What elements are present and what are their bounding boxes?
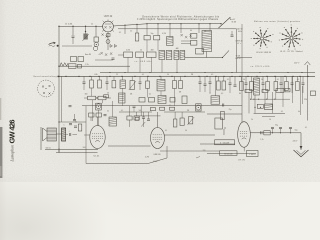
wire heater rail 2 xyxy=(82,105,242,107)
wire y122 left xyxy=(59,121,86,123)
resistor R29 xyxy=(96,113,101,117)
capacitor C7 xyxy=(83,81,86,83)
svg-text:± 20% möglich. Spannungen mit: ± 20% möglich. Spannungen mit Röhrenvolt… xyxy=(137,17,219,21)
svg-text:0,1: 0,1 xyxy=(277,79,279,81)
antenna arrow A1 xyxy=(49,43,56,45)
node rail J6 xyxy=(136,24,137,25)
wire drop ext b xyxy=(147,88,149,97)
node rail J8 xyxy=(157,23,158,24)
svg-text:468: 468 xyxy=(151,49,154,51)
wire jack drop xyxy=(98,110,100,126)
wire v300 xyxy=(300,76,302,115)
node t9 a xyxy=(254,107,255,108)
resistor R19 xyxy=(217,81,221,90)
wire chassis rail xyxy=(59,75,315,77)
svg-text:50µ: 50µ xyxy=(295,130,298,132)
speaker hatch xyxy=(47,131,56,138)
resistor R13 xyxy=(112,81,116,88)
wire row y112b xyxy=(164,111,205,113)
switch S1 arm xyxy=(219,18,231,29)
capacitor C21d xyxy=(69,105,72,107)
node S1 tip xyxy=(229,17,230,18)
svg-text:0,1: 0,1 xyxy=(121,110,123,112)
wire v292 xyxy=(292,76,294,103)
svg-text:L 4020: L 4020 xyxy=(249,154,256,156)
capacitor C9 xyxy=(139,81,142,83)
svg-text:ca. 468 kHz: ca. 468 kHz xyxy=(135,61,152,63)
node J2 xyxy=(85,26,86,27)
capacitor C28 xyxy=(289,126,292,128)
svg-text:0,1: 0,1 xyxy=(165,130,167,132)
wire bottom bus 2 xyxy=(56,152,98,154)
svg-text:50: 50 xyxy=(185,130,187,132)
node avc J5 xyxy=(231,72,232,73)
wire drop x147 xyxy=(146,24,148,36)
node rail J12 xyxy=(209,23,210,24)
node chassis-left xyxy=(58,76,59,77)
svg-text:5k: 5k xyxy=(107,111,109,113)
wire drop x73 xyxy=(72,26,74,35)
range switch contacts xyxy=(42,85,51,95)
wire drop x170 xyxy=(169,24,171,37)
resistor R23 xyxy=(266,82,270,91)
capacitor C11 xyxy=(204,83,207,85)
resistor R38 xyxy=(276,89,284,93)
svg-text:5k: 5k xyxy=(261,79,263,81)
potentiometer P2 xyxy=(130,81,134,90)
svg-text:0,1: 0,1 xyxy=(149,94,151,96)
svg-text:4 700: 4 700 xyxy=(153,161,158,163)
node chassis J9 xyxy=(171,76,172,77)
svg-text:47 c: 47 c xyxy=(237,43,241,45)
wire c30 drop xyxy=(133,105,135,107)
capacitor C6 xyxy=(112,57,115,59)
node y99 d xyxy=(274,99,275,100)
boxed label B3 xyxy=(247,151,259,157)
svg-text:0,1M: 0,1M xyxy=(68,24,73,26)
svg-text:50: 50 xyxy=(65,24,67,26)
resistor R18 xyxy=(104,95,109,98)
tube U4 envelope xyxy=(238,122,251,148)
svg-text:220: 220 xyxy=(203,150,206,152)
node chassis J6 xyxy=(134,76,135,77)
tube U3 envelope xyxy=(151,128,165,149)
resistor R40 xyxy=(257,104,263,108)
wire AVC rail xyxy=(100,72,315,74)
IF transformer T5 xyxy=(254,78,260,95)
svg-text:50p: 50p xyxy=(151,33,154,35)
wire row y112 xyxy=(119,111,152,113)
capacitor C10 xyxy=(199,81,202,83)
svg-text:41: 41 xyxy=(98,54,100,56)
transformer T6 winding xyxy=(62,128,66,141)
wire drop ext e xyxy=(91,88,93,96)
wire ext v267 xyxy=(267,91,269,100)
svg-text:Ant 4B: Ant 4B xyxy=(85,53,91,56)
resistor R22 xyxy=(250,82,254,91)
transformer T9 primary xyxy=(265,104,273,110)
svg-text:0,1: 0,1 xyxy=(227,79,229,81)
resistor R8 xyxy=(147,52,156,57)
capacitor C14 xyxy=(234,84,237,86)
resistor R10 xyxy=(69,64,77,69)
range switch S3 dashed circle xyxy=(38,80,55,97)
node chassis J16 xyxy=(239,76,240,77)
svg-text:UCH 42 UBF 80: UCH 42 UBF 80 xyxy=(256,52,272,54)
coil L4 xyxy=(119,93,125,103)
IF transformer T2 a xyxy=(159,51,165,60)
svg-text:300: 300 xyxy=(85,94,88,96)
node avc J3 xyxy=(176,72,177,73)
resistor R32 xyxy=(173,119,177,127)
resistor R6 xyxy=(124,52,133,57)
tube socket diagram V1 xyxy=(261,37,264,40)
resistor R11 xyxy=(90,80,94,88)
node chassis J10 xyxy=(184,76,185,77)
svg-text:UCH 42: UCH 42 xyxy=(104,15,113,18)
wire row y57.5 xyxy=(185,57,223,59)
boxed label B1 xyxy=(215,140,235,145)
wire v283 xyxy=(282,76,284,107)
node out3 xyxy=(290,132,291,133)
resistor R27 xyxy=(78,124,82,131)
wire u2-u3 link xyxy=(108,145,151,147)
node avc J1 xyxy=(124,72,125,73)
potentiometer P1 xyxy=(83,34,87,40)
resistor R9a xyxy=(71,57,77,62)
coil L5 xyxy=(109,117,116,126)
stray mark xyxy=(196,157,200,159)
svg-text:50: 50 xyxy=(243,79,245,81)
potentiometer P4 xyxy=(135,117,139,120)
wire second rail xyxy=(118,28,237,30)
node chassis J2 xyxy=(89,76,90,77)
svg-text:50: 50 xyxy=(107,93,109,95)
trimmer capacitor C2 xyxy=(94,42,98,46)
node y99 a xyxy=(250,99,251,100)
capacitor C30 xyxy=(133,105,136,107)
speaker LS1 frame xyxy=(47,128,56,141)
svg-text:2k: 2k xyxy=(251,119,253,121)
node switch tap xyxy=(57,76,59,78)
resistor row b xyxy=(160,107,165,110)
oscillator coil circle xyxy=(93,46,97,50)
wire drop t2 xyxy=(161,60,163,73)
resistor R10b xyxy=(78,64,82,68)
wire U5 grid xyxy=(84,134,90,136)
wire link sp xyxy=(56,133,61,135)
svg-text:0,2: 0,2 xyxy=(211,74,213,76)
coil L1 xyxy=(167,37,173,46)
resistor R42 xyxy=(149,98,155,103)
svg-text:25µ: 25µ xyxy=(229,109,232,111)
tube U5 output envelope xyxy=(90,126,105,149)
wire l-route right xyxy=(160,150,220,152)
speaker LS1 cone xyxy=(43,128,47,141)
wire ext v275 xyxy=(275,91,277,100)
wire U3 top xyxy=(157,112,159,128)
wire y116 xyxy=(262,116,275,118)
node chassis J15 xyxy=(231,76,232,77)
resistor R4 xyxy=(154,36,160,40)
node avc J0 xyxy=(109,72,110,73)
wire C1 down xyxy=(72,37,74,44)
svg-text:UL 41: UL 41 xyxy=(94,155,101,157)
mains arrow xyxy=(294,150,309,157)
svg-text:500 Ω: 500 Ω xyxy=(45,147,51,149)
svg-text:0,3: 0,3 xyxy=(297,79,299,81)
wire link y60 xyxy=(95,59,113,61)
wire drop x158 xyxy=(157,24,159,36)
svg-text:0,1: 0,1 xyxy=(119,32,121,34)
wire v141 xyxy=(140,106,142,116)
wire drop ext a xyxy=(122,88,124,105)
node chassis J8 xyxy=(159,76,160,77)
node rail J7 xyxy=(146,23,147,24)
wire bottom bus 1 xyxy=(45,149,98,151)
svg-text:0,5: 0,5 xyxy=(221,93,223,95)
svg-text:0,5: 0,5 xyxy=(169,105,171,107)
wire heater seg xyxy=(59,65,130,67)
resistor R33 xyxy=(180,118,184,125)
node rail J11 xyxy=(198,23,199,24)
node y122 xyxy=(58,121,59,122)
svg-text:1,2k: 1,2k xyxy=(260,139,263,141)
svg-text:220 V~: 220 V~ xyxy=(294,63,300,65)
capacitor C17 xyxy=(280,82,283,84)
capacitor C1 xyxy=(72,35,75,37)
resistor row c xyxy=(170,107,175,110)
node chassis J11 xyxy=(198,76,199,77)
wire left bus pair xyxy=(61,76,63,122)
resistor row a xyxy=(150,108,155,111)
wire drop x199 xyxy=(198,24,200,33)
node y99 c xyxy=(266,99,267,100)
resistor column Rb xyxy=(191,41,197,46)
node rail J10 xyxy=(180,23,181,24)
tube U1 hexode marks xyxy=(101,52,113,56)
capacitor C16 xyxy=(262,82,265,84)
wire U1 anode drop xyxy=(107,32,109,50)
capacitor C21c xyxy=(74,125,77,127)
svg-text:GW 426: GW 426 xyxy=(8,120,17,144)
wire v265 xyxy=(264,93,266,104)
svg-text:220 V: 220 V xyxy=(293,140,298,142)
wire drop r8 xyxy=(151,57,153,72)
node avc J4 xyxy=(204,72,205,73)
transformer T8 box xyxy=(215,118,222,129)
capacitor C22 xyxy=(104,114,107,116)
svg-text:UY 1 N: UY 1 N xyxy=(238,159,245,161)
node chassis J22 xyxy=(292,76,293,77)
wire drop ext c xyxy=(160,91,162,96)
wire drop ext d xyxy=(174,89,176,106)
svg-text:1,5k: 1,5k xyxy=(85,64,88,66)
capacitor C21 xyxy=(73,119,76,121)
node heater-left xyxy=(58,66,59,67)
svg-text:50µ: 50µ xyxy=(275,125,278,127)
svg-text:50: 50 xyxy=(167,74,169,76)
resistor R16 xyxy=(179,81,183,89)
capacitor C24 xyxy=(147,118,150,120)
svg-text:ZF: ZF xyxy=(253,99,255,101)
capacitor C13 xyxy=(229,82,232,84)
svg-text:SB 63 ΩM: SB 63 ΩM xyxy=(224,153,233,155)
wire switch right xyxy=(237,57,252,59)
resistor R26 xyxy=(296,82,300,91)
resistor R3 xyxy=(144,36,150,40)
node chassis J13 xyxy=(215,76,216,77)
resistor R44 xyxy=(182,96,187,104)
wire x236 vertical xyxy=(236,29,238,73)
wire v92 xyxy=(92,100,94,121)
wire y153 xyxy=(207,153,256,155)
box jack J5 xyxy=(196,104,202,111)
svg-text:Bereichsumschaltung: Bereichsumschaltung xyxy=(34,75,57,78)
wire left bus vertical xyxy=(58,26,60,152)
resistor column Ra xyxy=(191,34,197,39)
capacitor C25 xyxy=(222,104,224,107)
resistor R45 xyxy=(311,91,316,96)
wire v102 xyxy=(102,100,104,103)
wire y116 mid xyxy=(134,115,161,117)
IF transformer T2 b xyxy=(166,51,172,60)
node chassis J17 xyxy=(247,76,248,77)
wire drop x125 xyxy=(124,25,126,34)
svg-text:10: 10 xyxy=(269,119,271,121)
capacitor C20 electrolytic xyxy=(69,133,71,136)
wire v272 xyxy=(272,92,274,113)
svg-text:50k: 50k xyxy=(139,110,142,112)
wire drop t3 xyxy=(176,60,178,73)
wire v112 xyxy=(112,101,114,117)
tube U1 UCH42 envelope xyxy=(103,21,114,32)
node avc J7 xyxy=(287,72,288,73)
wire T1 bottom xyxy=(206,52,208,58)
svg-text:2k: 2k xyxy=(130,31,132,33)
tube U1 triode marks xyxy=(102,34,108,38)
wire y99 xyxy=(251,98,291,100)
capacitor C27 xyxy=(279,126,282,128)
node t9 b xyxy=(260,107,261,108)
coil L7 xyxy=(158,96,166,104)
node rail J9 xyxy=(169,23,170,24)
svg-text:1k: 1k xyxy=(75,122,77,124)
node rail corner xyxy=(58,26,59,27)
resistor R15 xyxy=(173,81,177,89)
padder flags xyxy=(110,45,117,48)
wire lower link xyxy=(62,45,92,47)
tube U2 electrode marks xyxy=(181,34,192,38)
wire HT rail left xyxy=(59,25,103,27)
wire drop x96 xyxy=(95,26,97,37)
wire HT rail right of U1 xyxy=(113,24,221,26)
antenna symbol right xyxy=(305,62,311,72)
coil L3 xyxy=(120,80,125,88)
node chassis J24 xyxy=(307,76,308,77)
svg-text:0,1: 0,1 xyxy=(305,127,307,129)
node y99 b xyxy=(258,99,259,100)
wire drop x137 xyxy=(136,24,138,33)
resistor R39 xyxy=(285,89,290,92)
tube U1 lower box xyxy=(107,34,110,37)
tube U1 electrodes xyxy=(104,26,111,28)
svg-text:500: 500 xyxy=(83,147,86,149)
svg-text:50: 50 xyxy=(140,49,142,51)
wire mid link xyxy=(165,134,216,136)
node out2 xyxy=(280,132,281,133)
svg-text:4,7M: 4,7M xyxy=(145,157,149,159)
wire y113 xyxy=(254,112,285,114)
capacitor C12 xyxy=(209,81,212,83)
resistor R20 xyxy=(222,81,226,90)
tube socket diagram V2 xyxy=(290,37,293,40)
resistor R35 xyxy=(264,131,270,135)
wire link r4 xyxy=(157,40,159,51)
svg-text:UBF 80: UBF 80 xyxy=(153,154,161,156)
svg-text:Röhren von unten (Lötseite) ge: Röhren von unten (Lötseite) gesehen xyxy=(254,20,301,23)
switch S2 arm xyxy=(223,51,230,58)
node chassis J0 xyxy=(65,76,66,77)
wire right vertical xyxy=(306,72,308,121)
wire mains drop xyxy=(300,133,302,150)
wire T7 drop xyxy=(214,76,216,95)
capacitor C18 xyxy=(291,82,294,84)
wire U4 right xyxy=(250,132,301,134)
node out1 xyxy=(272,132,273,133)
node chassis J19 xyxy=(266,76,267,77)
svg-text:25: 25 xyxy=(116,74,118,76)
svg-text:6,8k: 6,8k xyxy=(94,74,97,76)
svg-text:Lumophon: Lumophon xyxy=(10,145,14,163)
resistor R9b xyxy=(78,57,84,62)
wire y114 right xyxy=(207,113,242,115)
wire y144 xyxy=(200,143,235,145)
resistor R14 xyxy=(146,81,150,88)
capacitor C8 xyxy=(106,81,109,83)
wire speaker left xyxy=(40,127,42,150)
svg-text:60: 60 xyxy=(190,30,192,32)
resistor R7 xyxy=(136,52,144,57)
svg-text:0,1: 0,1 xyxy=(142,74,144,76)
IF transformer T3 a xyxy=(174,51,179,60)
node chassis J18 xyxy=(256,76,257,77)
svg-text:25: 25 xyxy=(91,24,93,26)
potentiometer P3 xyxy=(189,117,193,124)
coil L2 zigzag xyxy=(60,63,68,67)
wire U5 anode xyxy=(97,117,99,126)
wire v255 xyxy=(254,95,256,114)
capacitor C23 xyxy=(142,116,145,118)
capacitor C5 xyxy=(231,34,234,36)
resistor R30 xyxy=(127,116,132,120)
resistor R21 xyxy=(240,82,244,91)
node chassis J5 xyxy=(121,76,122,77)
node chassis J3 xyxy=(98,76,99,77)
IF transformer T4 xyxy=(157,80,165,91)
coil L6 xyxy=(224,127,226,135)
box jack J6 xyxy=(96,103,102,110)
wire heater drop xyxy=(128,106,130,112)
resistor R17 pair xyxy=(88,96,96,100)
node avc J8 xyxy=(301,72,302,73)
node chassis J21 xyxy=(284,76,285,77)
wire step route xyxy=(86,146,167,164)
resistor R37 xyxy=(262,90,268,93)
resistor R36 xyxy=(245,90,252,93)
capacitor C26 xyxy=(271,126,274,128)
resistor R28 xyxy=(89,113,94,117)
